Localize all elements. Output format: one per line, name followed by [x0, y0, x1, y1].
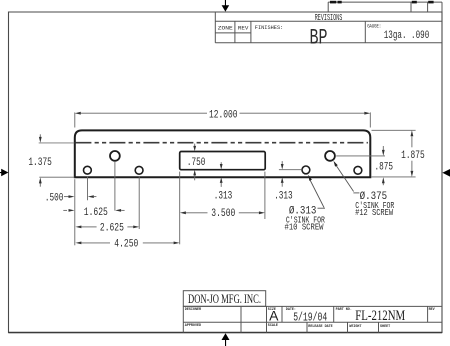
dim .500 — [64, 196, 96, 198]
hole H4 — [302, 166, 310, 174]
title block tiny labels row1 — [185, 308, 436, 312]
hole H6 — [354, 166, 362, 174]
border centering arrow left — [0, 169, 8, 176]
svg-text:REV: REV — [429, 308, 436, 312]
svg-text:1.375: 1.375 — [28, 157, 52, 169]
hole H1 — [84, 166, 92, 174]
svg-text:4.250: 4.250 — [114, 238, 138, 250]
svg-text:REV: REV — [238, 25, 249, 31]
svg-text:1.875: 1.875 — [401, 150, 425, 162]
dim 3.500 — [186, 212, 259, 214]
ext line hole H3 down — [138, 176, 140, 229]
title block grid — [183, 306, 442, 332]
dim .875 — [336, 146, 385, 185]
svg-text:FINISHES:: FINISHES: — [255, 25, 283, 31]
svg-text:13ga. .090: 13ga. .090 — [384, 30, 430, 42]
ext line slot left down — [179, 172, 181, 245]
title block company box — [183, 291, 265, 307]
plate outline — [75, 130, 371, 177]
svg-text:12.000: 12.000 — [209, 110, 238, 122]
dim 1.375 — [39, 134, 74, 186]
ext line hole H1 down — [87, 176, 89, 200]
ext line plate left edge down — [74, 179, 76, 245]
dim 4.250 — [81, 242, 173, 244]
svg-text:WEIGHT: WEIGHT — [349, 325, 361, 329]
svg-text:#12 SCREW: #12 SCREW — [355, 207, 393, 218]
svg-text:SCALE: SCALE — [268, 324, 278, 328]
svg-text:5/19/04: 5/19/04 — [293, 311, 327, 325]
border centering arrow right — [442, 169, 450, 177]
slot cutout — [180, 152, 266, 170]
title block tiny labels row2 — [185, 324, 390, 329]
svg-text:DESIGNER: DESIGNER — [185, 308, 202, 312]
svg-text:.500: .500 — [45, 193, 64, 205]
svg-text:DON-JO MFG. INC.: DON-JO MFG. INC. — [188, 291, 261, 306]
svg-text:FL-212NM: FL-212NM — [355, 308, 405, 324]
leader for hole H5 countersink — [336, 165, 354, 191]
dim 1.625 — [63, 209, 124, 211]
dim 1.875 — [372, 130, 416, 177]
svg-text:.313: .313 — [274, 190, 293, 202]
revision history strip (cut off at top) — [328, 2, 442, 12]
svg-text:1.625: 1.625 — [84, 207, 108, 219]
svg-text:.750: .750 — [187, 157, 206, 169]
svg-text:A: A — [269, 307, 279, 323]
svg-text:REVISIONS: REVISIONS — [315, 12, 343, 23]
svg-text:.313: .313 — [214, 191, 233, 203]
ext line slot right down — [264, 172, 266, 219]
hole H3 — [135, 166, 143, 174]
svg-text:3.500: 3.500 — [211, 208, 235, 220]
dim 12.000 — [75, 112, 371, 127]
svg-text:APPROVED: APPROVED — [185, 324, 201, 328]
svg-text:RELEASE DATE: RELEASE DATE — [308, 325, 332, 329]
dim .313 left — [220, 162, 222, 187]
dim .750 — [194, 144, 196, 181]
svg-text:#10 SCREW: #10 SCREW — [285, 222, 324, 233]
hole H5 (large) — [325, 151, 335, 161]
border centering arrow top — [222, 0, 230, 12]
svg-text:PART NO.: PART NO. — [336, 308, 352, 312]
svg-text:ZONE: ZONE — [218, 25, 233, 31]
svg-text:BP: BP — [310, 25, 328, 51]
svg-text:GAUGE:: GAUGE: — [367, 24, 381, 30]
revisions table — [215, 12, 442, 43]
svg-text:SHEET: SHEET — [380, 325, 390, 329]
border centering arrow bottom — [222, 333, 230, 346]
revision strip text fragments — [330, 1, 434, 4]
centerline (phantom) — [75, 142, 368, 144]
dim 2.625 — [81, 226, 133, 228]
leader for hole H4 countersink — [309, 179, 324, 208]
hole H2 (large) — [110, 151, 120, 161]
svg-text:2.625: 2.625 — [100, 223, 124, 235]
svg-text:.875: .875 — [375, 162, 394, 174]
centerline stub left — [39, 142, 75, 144]
dim .313 right — [279, 169, 301, 171]
ext line hole H2 down — [114, 162, 116, 211]
